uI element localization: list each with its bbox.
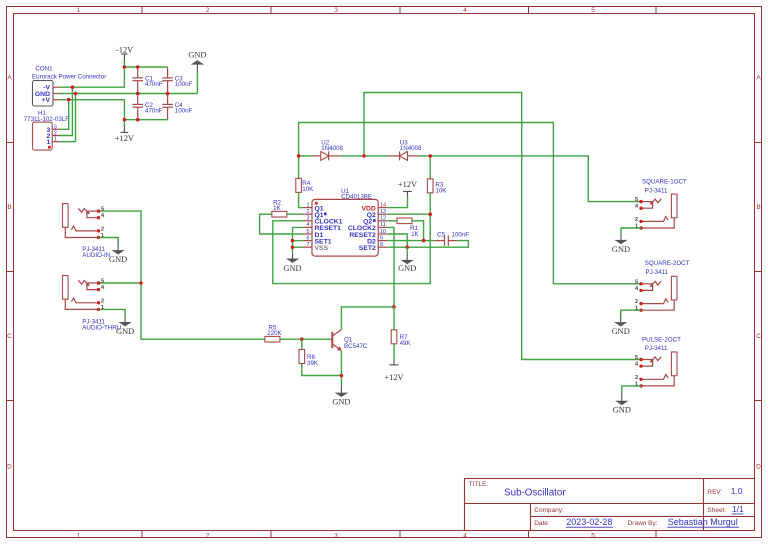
svg-text:GND: GND: [612, 327, 630, 336]
junction diode row left: [297, 154, 301, 158]
wire D2 row: [387, 240, 434, 242]
wire R2 left to D1: [260, 214, 303, 234]
svg-text:2: 2: [635, 375, 638, 381]
wire CON1 +V to riser: [60, 100, 125, 120]
svg-text:5: 5: [101, 207, 104, 213]
junction C2 bottom: [136, 118, 140, 122]
junction SET1: [291, 239, 295, 243]
wire pulse2oct feed riser: [364, 93, 641, 360]
wire H1 pin2 to -V rail: [60, 87, 73, 135]
svg-text:2: 2: [306, 209, 309, 215]
ruler tick bottom 5: [655, 531, 657, 538]
wire square1 sleeve to gnd: [621, 228, 641, 234]
svg-text:GND: GND: [612, 245, 630, 254]
wire +12V rail to C2 C4 bottoms: [124, 119, 167, 121]
jack J-PULSE-2OCT PJ-3411: [635, 337, 681, 388]
ruler tick bottom 4: [528, 531, 530, 538]
title block divider rev cell: [703, 479, 705, 531]
svg-text:3: 3: [306, 216, 309, 222]
wire R3 bottom to Q2 pin13: [387, 193, 430, 214]
title block outline: [465, 479, 755, 531]
wire emitter down: [340, 350, 342, 385]
POWERSEC: [24, 46, 207, 151]
wire R4 bottom to U1 pin1: [299, 192, 303, 207]
U1 pin 8 SET2: [359, 242, 387, 252]
svg-text:6: 6: [306, 235, 309, 241]
jack J-AUDIO-THRU PJ-3411: [63, 276, 122, 332]
capacitor C4: [162, 94, 192, 120]
svg-text:2: 2: [101, 226, 104, 232]
junction SET2 gnd: [405, 245, 409, 249]
svg-text:470nF: 470nF: [145, 81, 163, 88]
ground audio-in: [109, 245, 127, 265]
U1 pin 6 SET1: [303, 235, 332, 245]
DIODES: [273, 93, 641, 360]
svg-text:C5: C5: [437, 231, 445, 238]
junction -V riser: [123, 65, 127, 69]
junction diode row right: [428, 154, 432, 158]
jack J-AUDIO-IN PJ-3411: [63, 204, 111, 259]
title block divider left cell: [530, 504, 532, 531]
wire audio bus riser: [99, 211, 265, 339]
U1 pin 3 CLOCK1: [303, 216, 343, 226]
junction H1 pin2 on -V: [71, 85, 75, 89]
svg-text:1N4008: 1N4008: [400, 145, 422, 152]
svg-text:GND: GND: [188, 51, 206, 60]
svg-text:CON1: CON1: [35, 66, 53, 73]
svg-text:Sheet:: Sheet:: [707, 507, 726, 514]
jack J-SQUARE-1OCT PJ-3411: [635, 178, 687, 229]
svg-text:11: 11: [380, 222, 386, 228]
svg-text:12: 12: [380, 216, 386, 222]
svg-text:TITLE:: TITLE:: [469, 481, 489, 488]
svg-text:A: A: [7, 75, 12, 82]
svg-text:PJ-3411: PJ-3411: [645, 188, 668, 195]
svg-text:GND: GND: [116, 327, 134, 336]
wire R4 top lead: [298, 156, 300, 179]
power flag +12V bottom: [115, 126, 134, 143]
ground Q1 emitter: [332, 385, 350, 406]
svg-text:100nF: 100nF: [452, 231, 470, 238]
wire square1oct feed: [430, 156, 641, 202]
svg-text:Sub-Oscillator: Sub-Oscillator: [504, 488, 566, 499]
svg-text:2: 2: [206, 533, 210, 540]
junction C1 C2 mid: [136, 92, 140, 96]
wire R7 bottom lead: [393, 344, 395, 360]
capacitor C3: [162, 67, 192, 94]
junction collector R7: [392, 305, 396, 309]
junction +V riser: [123, 118, 127, 122]
junction VSS: [291, 245, 295, 249]
ruler tick left 1: [6, 142, 13, 144]
svg-text:14: 14: [380, 202, 386, 208]
svg-text:Date:: Date:: [534, 520, 550, 527]
wire VSS stub: [293, 246, 304, 248]
svg-text:SQUARE-1OCT: SQUARE-1OCT: [642, 178, 687, 185]
U1 pin 10 RESET2: [349, 229, 387, 239]
power flag +12V at VDD: [387, 180, 417, 207]
wire audio-thru sleeve to gnd: [99, 309, 126, 316]
svg-text:220K: 220K: [267, 330, 282, 337]
wire pulse sleeve to gnd: [622, 386, 641, 392]
svg-text:+12V: +12V: [384, 373, 403, 382]
svg-text:2: 2: [635, 217, 638, 223]
svg-text:Company:: Company:: [534, 507, 564, 514]
ruler tick top 5: [655, 6, 657, 13]
svg-text:GND: GND: [283, 264, 301, 273]
svg-text:PJ-3411: PJ-3411: [645, 345, 668, 352]
svg-text:100nF: 100nF: [175, 81, 193, 88]
svg-text:5: 5: [101, 279, 104, 285]
svg-text:1K: 1K: [411, 231, 419, 238]
svg-text:2: 2: [54, 131, 57, 137]
svg-text:GND: GND: [109, 255, 127, 264]
U1 pin 11 CLOCK2: [348, 222, 387, 232]
svg-text:7: 7: [306, 242, 309, 248]
U1 pin 14 VDD: [361, 202, 387, 212]
wire R7 top lead: [393, 307, 395, 330]
wire -12V rail to C1 C3 tops: [124, 66, 167, 68]
svg-text:10K: 10K: [435, 188, 447, 195]
wire diode row right segment: [417, 155, 430, 157]
svg-text:1: 1: [77, 533, 81, 540]
svg-text:100nF: 100nF: [175, 108, 193, 115]
svg-text:SQUARE-2OCT: SQUARE-2OCT: [645, 260, 690, 267]
ground pulse: [613, 392, 631, 414]
wire diode row left segment: [299, 155, 312, 157]
wire audio-in sleeve to gnd: [99, 238, 119, 245]
wire R6 bottom to emitter: [302, 364, 342, 376]
svg-text:REV:: REV:: [707, 489, 722, 496]
resistor R6: [299, 350, 319, 367]
ground audio-thru: [116, 316, 134, 336]
svg-text:+V: +V: [41, 97, 50, 104]
ruler tick top 4: [528, 6, 530, 13]
svg-text:1: 1: [54, 137, 57, 143]
wire +12V symbol stem upper: [123, 120, 125, 126]
svg-text:4: 4: [306, 222, 309, 228]
wire R1 to D2 row: [412, 221, 424, 241]
svg-text:49K: 49K: [400, 340, 412, 347]
svg-text:VSS: VSS: [315, 245, 329, 252]
ruler tick bottom 2: [270, 531, 272, 538]
diode U3: [390, 139, 422, 160]
wire H1 pin3 to +V rail: [60, 100, 69, 130]
title block divider row1: [465, 503, 755, 505]
svg-text:3: 3: [334, 7, 338, 14]
wire pin12 to R1: [387, 220, 397, 222]
QSEC: [99, 211, 412, 406]
power flag +12V at R7: [384, 360, 403, 383]
wire RESET1 to SET1 VSS gnd: [293, 227, 304, 253]
ruler tick right 2: [755, 271, 762, 273]
ruler tick right 3: [755, 400, 762, 402]
svg-text:A: A: [756, 75, 761, 82]
junction base R6: [300, 337, 304, 341]
svg-text:BC547C: BC547C: [344, 343, 368, 350]
svg-text:1: 1: [47, 139, 51, 146]
svg-text:-12V: -12V: [116, 46, 133, 55]
wire GND rail riser to flag: [196, 71, 198, 94]
title block divider row2: [531, 516, 755, 518]
junction diode row mid: [362, 154, 366, 158]
ruler tick bottom 1: [141, 531, 143, 538]
jack J-SQUARE-2OCT PJ-3411: [635, 260, 690, 312]
junction C1 top: [136, 65, 140, 69]
svg-text:2: 2: [206, 7, 210, 14]
IC: [260, 180, 470, 273]
svg-text:13: 13: [380, 209, 386, 215]
U1 pin 4 RESET1: [303, 222, 341, 232]
resistor R3: [427, 179, 447, 195]
resistor R7: [391, 330, 411, 347]
wire -12V symbol stem lower: [123, 61, 125, 68]
ruler tick left 2: [6, 271, 13, 273]
svg-text:2: 2: [635, 299, 638, 305]
svg-text:B: B: [7, 204, 11, 211]
LEFTJACKS: [63, 204, 135, 336]
diode U2: [312, 139, 344, 160]
svg-text:1/1: 1/1: [732, 504, 744, 514]
svg-text:2: 2: [101, 298, 104, 304]
wire CON1 -V to riser: [60, 67, 125, 87]
svg-text:GND: GND: [613, 405, 631, 414]
svg-text:470nF: 470nF: [145, 108, 163, 115]
svg-text:C: C: [756, 333, 761, 340]
svg-text:Sebastian Murgul: Sebastian Murgul: [668, 517, 738, 527]
ruler tick bottom 3: [399, 531, 401, 538]
capacitor C1: [132, 67, 162, 94]
wire GND rail CON1 to caps mid: [60, 93, 198, 95]
svg-text:9: 9: [380, 235, 383, 241]
junction emitter R6: [340, 374, 344, 378]
ground square2: [612, 317, 630, 337]
wire RESET2 down to SET2: [387, 234, 407, 247]
svg-text:+12V: +12V: [115, 134, 134, 143]
svg-text:10: 10: [380, 229, 386, 235]
header H1: [24, 110, 70, 150]
wire R3 top lead: [429, 156, 431, 179]
wire diode row mid segment: [340, 155, 390, 157]
svg-text:+12V: +12V: [398, 180, 417, 189]
connector CON1: [32, 66, 106, 106]
resistor R1: [397, 218, 420, 238]
resistor R2: [272, 200, 287, 217]
svg-text:1: 1: [77, 7, 81, 14]
svg-text:2023-02-28: 2023-02-28: [566, 517, 612, 527]
RIGHTJACKS: [612, 178, 690, 414]
junction H1 pin1 on GND: [74, 92, 78, 96]
transistor Q1 BC547C: [332, 330, 368, 351]
svg-text:4: 4: [463, 533, 467, 540]
ground flag top (caps): [188, 51, 206, 71]
svg-text:1K: 1K: [273, 205, 281, 212]
svg-text:B: B: [756, 204, 760, 211]
svg-text:AUDIO-IN: AUDIO-IN: [82, 252, 110, 259]
junction R1 D2: [422, 239, 426, 243]
svg-text:PJ-3411: PJ-3411: [646, 269, 669, 276]
svg-text:5: 5: [635, 197, 638, 203]
svg-text:10K: 10K: [302, 186, 314, 193]
svg-text:D: D: [7, 464, 12, 471]
svg-text:1N4008: 1N4008: [321, 145, 343, 152]
capacitor C5: [434, 231, 469, 246]
svg-text:4: 4: [463, 7, 467, 14]
power flag -12V: [116, 46, 133, 61]
capacitor C2: [132, 94, 162, 120]
junction C3 C4 mid: [166, 92, 170, 96]
wire R5 to Q1 base: [280, 338, 332, 340]
wire Q2 net down to clock1 row: [273, 214, 430, 283]
op-amp U1 CD4013BE body: [312, 188, 378, 256]
wire H1 pin1 to GND rail: [60, 94, 76, 142]
junction Q2 R3: [428, 212, 432, 216]
ground U1 left: [283, 253, 301, 273]
svg-text:5: 5: [591, 533, 595, 540]
svg-text:GND: GND: [332, 397, 350, 406]
svg-text:PULSE-2OCT: PULSE-2OCT: [642, 337, 681, 344]
ruler tick right 1: [755, 142, 762, 144]
wire square2oct feed riser: [299, 123, 641, 284]
U1 pin 9 D2: [367, 235, 387, 245]
wire collector up to clock2: [341, 227, 394, 329]
svg-text:CD4013BE: CD4013BE: [341, 193, 372, 200]
svg-text:Eurorack Power Connector: Eurorack Power Connector: [32, 73, 106, 80]
wire C5 right to SET2 row: [387, 241, 468, 248]
svg-text:Drawn By:: Drawn By:: [628, 520, 658, 527]
svg-text:3: 3: [54, 124, 57, 130]
junction H1 pin3 on +V: [67, 98, 71, 102]
ruler tick top 1: [141, 6, 143, 13]
svg-text:5: 5: [635, 355, 638, 361]
wire audio-thru tap: [99, 282, 142, 284]
svg-text:5: 5: [306, 229, 309, 235]
svg-text:5: 5: [635, 279, 638, 285]
svg-text:1.0: 1.0: [731, 486, 743, 496]
wire SET1 stub: [293, 240, 304, 242]
wire R6 top lead: [301, 339, 303, 349]
svg-text:GND: GND: [398, 264, 416, 273]
ruler tick top 3: [399, 6, 401, 13]
svg-text:39K: 39K: [307, 360, 319, 367]
svg-text:8: 8: [380, 242, 383, 248]
resistor R5: [265, 324, 283, 342]
svg-text:5: 5: [591, 7, 595, 14]
svg-text:1: 1: [306, 202, 309, 208]
U1 pin 1 Q1: [303, 202, 324, 212]
wire R2 right to pin2: [287, 213, 303, 215]
ground U1 right: [398, 247, 416, 273]
U1 pin 2 Q1inv: [303, 209, 327, 219]
svg-text:D: D: [756, 464, 761, 471]
svg-text:77311-102-03LF: 77311-102-03LF: [24, 116, 70, 123]
junction audio thru tap: [139, 281, 143, 285]
U1 pin 12 Q2inv: [363, 216, 387, 226]
ruler tick left 3: [6, 400, 13, 402]
svg-text:C: C: [7, 333, 12, 340]
TITLEBLOCK: [465, 479, 755, 531]
svg-text:SET2: SET2: [359, 245, 376, 252]
ground square1: [612, 234, 630, 254]
wire square2 sleeve to gnd: [621, 310, 641, 316]
U1 pin 7 VSS: [303, 242, 329, 252]
svg-text:3: 3: [334, 533, 338, 540]
U1 pin 5 D1: [303, 229, 323, 239]
U1 pin 13 Q2: [367, 209, 387, 219]
resistor R4: [296, 178, 314, 193]
ruler tick top 2: [270, 6, 272, 13]
